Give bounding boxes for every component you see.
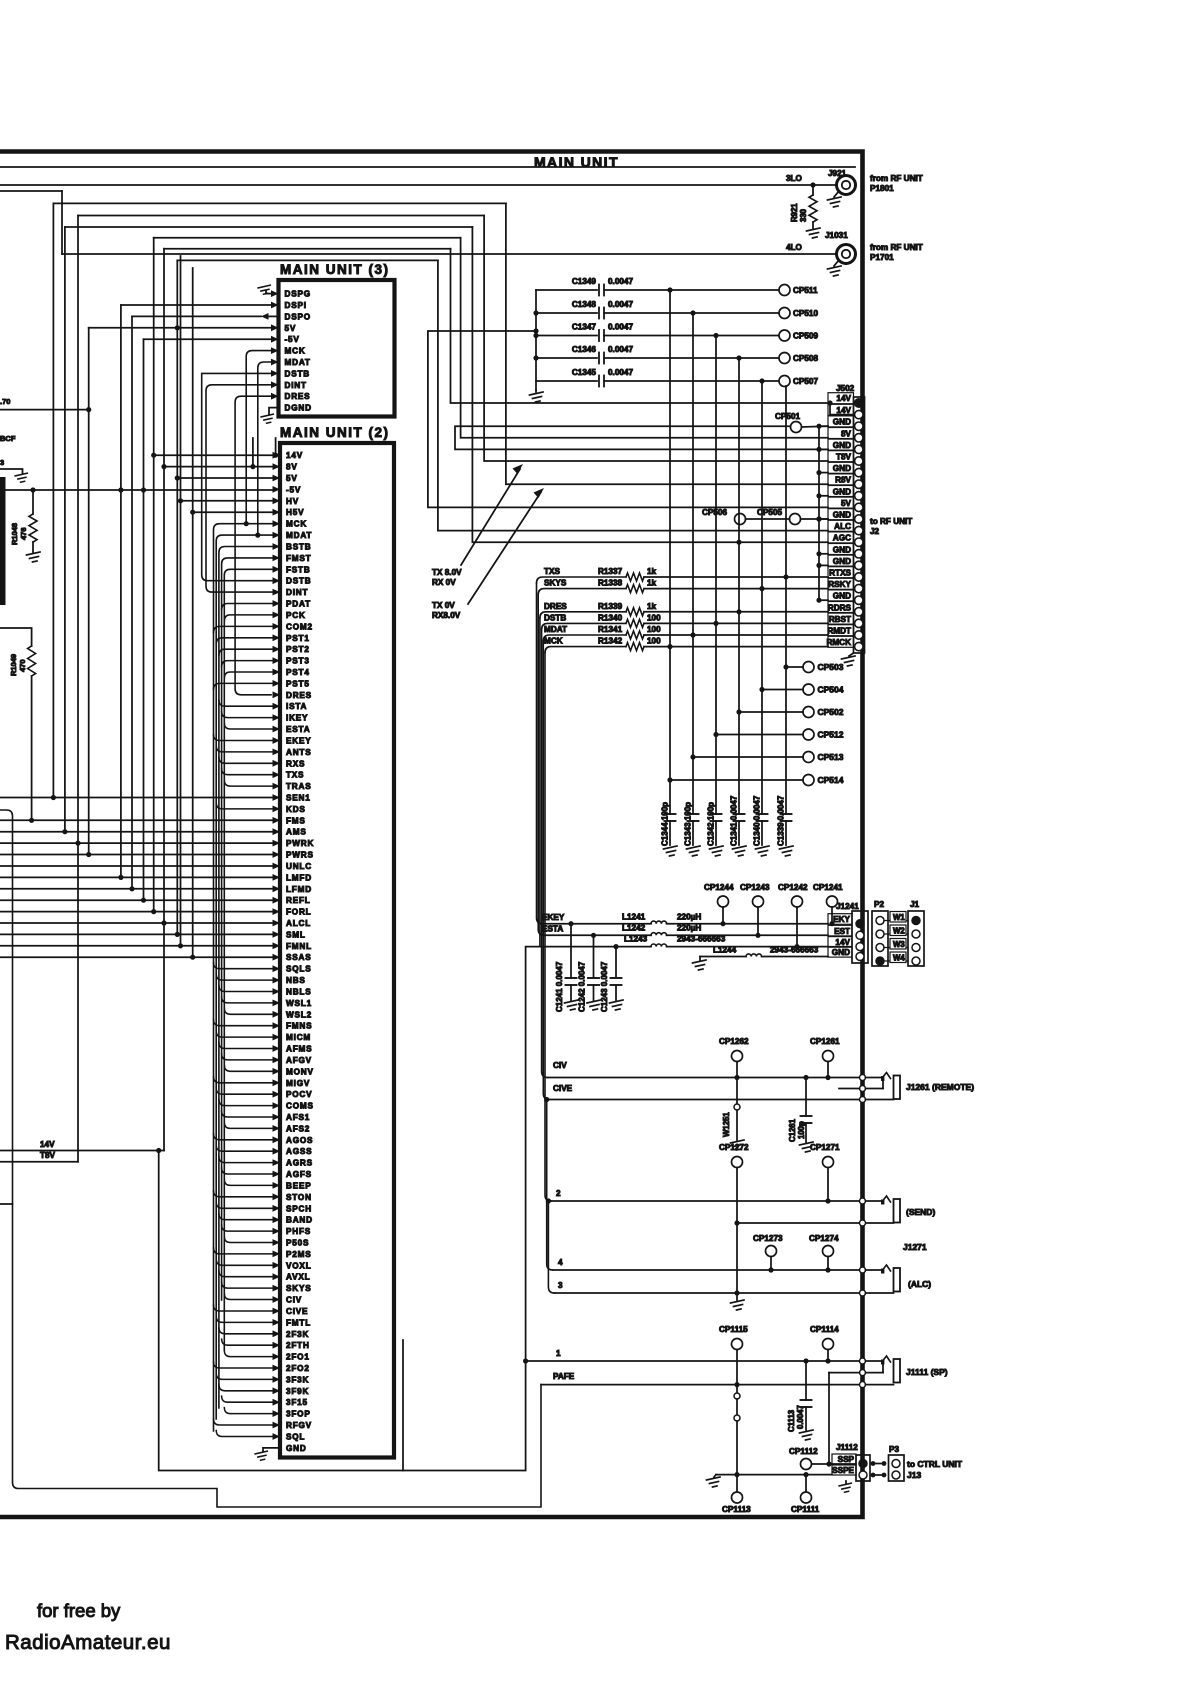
svg-text:3LO: 3LO [786,174,803,183]
svg-text:J1: J1 [910,900,920,909]
svg-text:FMNL: FMNL [286,942,312,951]
vertical nest PWRS [88,328,90,855]
svg-text:J13: J13 [907,1470,921,1480]
svg-text:P1801: P1801 [870,184,894,193]
wire pin feed TXS [222,769,273,775]
wire pin feed P2MS [214,1248,273,1254]
svg-text:CP503: CP503 [818,662,844,672]
wire band core strand MDAT [216,535,272,1419]
wire 8V from nest to J502 [461,238,828,438]
svg-text:CP514: CP514 [818,775,844,785]
wire 5V MU3 from nest [89,327,271,329]
wire pin feed KDS [216,803,272,809]
svg-text:330: 330 [799,208,808,222]
jumper W4 [884,960,908,962]
wire HV MU2 from nest [181,500,273,502]
svg-text:RDRS: RDRS [828,603,852,612]
wire GND bus at J502 [818,426,820,600]
svg-text:RMCK: RMCK [826,638,851,647]
wire 8V band vertical [252,438,254,467]
svg-text:P50S: P50S [286,1239,309,1248]
svg-text:3: 3 [0,458,4,467]
svg-text:W2: W2 [893,927,905,936]
wire DRES MU3 to MU2 [235,396,271,695]
inductor L1242 220uH [651,933,667,936]
svg-text:C1341 0.0047: C1341 0.0047 [730,795,739,846]
svg-text:IKEY: IKEY [286,714,308,723]
wire pin feed 3F9K [219,1385,273,1391]
pin J502-1 14V [828,393,854,404]
svg-text:0.0047: 0.0047 [608,323,633,332]
jumper W2 [884,933,908,935]
pin J1112 SSP [832,1454,856,1464]
svg-text:LFMD: LFMD [286,885,312,894]
svg-text:5V: 5V [841,499,852,508]
svg-text:C1345: C1345 [572,368,597,377]
svg-text:AGFS: AGFS [286,1170,312,1179]
svg-text:PST4: PST4 [286,668,310,677]
wire DSPI from nest [121,304,271,306]
svg-text:BAND: BAND [286,1216,313,1225]
wire GND U-strap [455,426,828,449]
svg-text:POCV: POCV [286,1090,312,1099]
svg-text:DGND: DGND [285,404,312,413]
wire L1243 row [526,946,651,948]
pin J502-10 5V [828,497,854,508]
jack J1261 REMOTE [860,1075,866,1081]
svg-text:W4: W4 [893,954,905,963]
svg-text:NBLS: NBLS [286,988,312,997]
svg-text:CP510: CP510 [793,309,818,318]
svg-text:GND: GND [833,592,851,601]
wire left edge to MU2 LMFD [0,876,273,878]
svg-text:AGOS: AGOS [286,1136,313,1145]
wire 14V bottom [0,1150,164,1152]
svg-text:2943-666663: 2943-666663 [770,946,819,955]
svg-text:R1341: R1341 [598,625,623,634]
svg-text:TRAS: TRAS [286,782,312,791]
wire band core strand FSTB [224,569,272,1350]
wire band core strand MCK [214,524,273,1431]
svg-text:C1344 100p: C1344 100p [661,802,670,846]
svg-text:GND: GND [833,545,851,554]
wire pin feed MONV [224,1065,272,1071]
svg-text:.70: .70 [0,397,10,406]
svg-text:SQL: SQL [286,1433,305,1442]
svg-text:CP502: CP502 [818,707,844,717]
svg-text:5V: 5V [285,324,297,333]
resistor R921 330 [812,185,814,195]
svg-text:CP511: CP511 [793,286,818,295]
wire DSTB riser to CIV [542,629,548,1077]
svg-text:P2MS: P2MS [286,1250,312,1259]
svg-text:-5V: -5V [285,335,300,344]
svg-text:UNLC: UNLC [286,862,312,871]
pin J502-20 RBST [828,613,854,624]
wire pin feed VOXL [216,1259,272,1265]
wire T8V from nest to J502 [484,216,828,462]
wire pin feed CIVE [214,1305,273,1311]
wire pin feed 3F3K [216,1373,272,1379]
pin J502-16 RTXS [828,567,854,578]
svg-text:C1348: C1348 [572,300,597,309]
wire 5V MU2 from nest [177,477,272,479]
resistor R1337 1k [626,573,644,581]
wire pin feed MIGV [214,1077,273,1083]
svg-text:CP1241: CP1241 [813,883,843,892]
svg-text:C1346: C1346 [572,345,597,354]
svg-text:to RF UNIT: to RF UNIT [870,517,912,526]
wire MDAT row [543,635,626,641]
svg-text:14V: 14V [836,394,851,403]
svg-text:SSAS: SSAS [286,953,312,962]
wire pin feed STON [214,1191,273,1197]
svg-text:CP1272: CP1272 [719,1143,749,1152]
wire TXS row [537,577,627,583]
ground under C1241 [565,1000,579,1010]
capacitor C1241 0.0047 [568,921,573,926]
wire CP1112 to SSP [812,1463,857,1465]
wire pin feed TRAS [224,780,272,786]
svg-text:R1337: R1337 [598,567,623,576]
svg-text:R921: R921 [790,203,799,222]
ground under CP1272 branch [731,1300,745,1310]
wire -5V MU3 from nest [144,338,272,340]
svg-text:CIVE: CIVE [286,1307,308,1316]
svg-text:FSTB: FSTB [286,565,311,574]
wire left edge to MU2 REFL [0,899,273,901]
ground under C1344 [664,846,678,856]
svg-text:R8V: R8V [835,476,851,485]
wire pin feed ANTS [216,746,272,752]
svg-text:L1243: L1243 [624,935,648,944]
svg-text:DSPI: DSPI [285,301,307,310]
jumper W1251 [736,1078,738,1105]
svg-text:R1339: R1339 [598,602,623,611]
wire 14V bracket J502 [827,400,832,405]
svg-text:C1339 0.0047: C1339 0.0047 [777,795,786,846]
wire 14V from nest to J502 [451,249,829,403]
svg-text:CP1243: CP1243 [740,883,770,892]
ground under C1113 [800,1430,814,1440]
svg-text:TX 0V: TX 0V [432,601,455,610]
wire pin feed RFGV [214,1419,273,1425]
svg-text:DSTB: DSTB [544,613,566,622]
svg-text:L1244: L1244 [713,946,737,955]
wire MCK riser to wire 2 [545,653,551,1201]
ground under R1048 [27,552,41,562]
component cut at left edge [0,477,6,605]
wire AGC from nest to J502 [472,227,828,542]
pin J502-12 ALC [828,520,854,531]
ground at J1031 [834,260,839,266]
svg-text:CP504: CP504 [818,685,844,695]
pin J1112 SSPE [832,1465,856,1475]
pin J502-19 RDRS [828,602,854,613]
svg-text:100: 100 [647,637,661,646]
test point CP514 [803,775,814,786]
vertical nest AMS [64,227,66,832]
svg-text:AVXL: AVXL [286,1273,310,1282]
pin J1241 EKY [828,914,852,925]
ground under C1243 [610,1000,624,1010]
capacitor C1346 0.0047 [536,357,597,359]
jack J1271 SEND [860,1198,866,1204]
ground stub top-left [0,469,23,473]
svg-text:LMFD: LMFD [286,873,312,882]
svg-text:0.0047: 0.0047 [608,368,633,377]
wire return vertical mid [402,1340,404,1471]
wire 8V MU2 from nest [164,466,273,468]
wire MCK MU3 to MU2 MCK [246,351,271,524]
svg-text:CP501: CP501 [775,412,800,421]
pin J502-18 GND [828,590,854,601]
svg-text:W3: W3 [893,940,905,949]
svg-text:from RF UNIT: from RF UNIT [870,174,923,183]
wire SP ring contact [829,1372,860,1374]
svg-text:J1112: J1112 [836,1443,858,1452]
svg-text:DSPO: DSPO [285,312,311,321]
svg-text:RTXS: RTXS [829,569,851,578]
wire pin feed PHFS [222,1225,273,1231]
svg-text:RXS: RXS [286,759,305,768]
svg-text:J921: J921 [828,169,847,178]
wire H5V MU2 from nest [193,511,273,513]
svg-text:RX 0V: RX 0V [432,578,456,587]
svg-text:R1338: R1338 [598,579,623,588]
ground at MAIN UNIT(2) GND [263,1448,280,1451]
ground of caps bus [535,390,537,392]
resistor R1339 1k [626,608,644,616]
svg-text:AFS1: AFS1 [286,1113,310,1122]
wire DSPO to nest [132,315,261,317]
svg-text:3F3K: 3F3K [286,1375,309,1384]
svg-text:FMTL: FMTL [286,1318,311,1327]
inductor L1243 2943-666663 [651,944,667,947]
svg-text:AGC: AGC [833,534,851,543]
svg-text:MDAT: MDAT [285,358,311,367]
svg-text:RMDT: RMDT [827,627,851,636]
svg-text:T8V: T8V [40,1151,56,1160]
svg-text:CP513: CP513 [818,752,844,762]
node caps left bus [535,290,537,390]
svg-text:1k: 1k [647,567,657,576]
svg-text:MCK: MCK [286,520,307,529]
wire pin feed IKEY [222,712,273,718]
wire CIV [548,1077,859,1079]
wire pin feed ESTA [224,723,272,729]
pin J1241 EST [828,925,852,936]
svg-text:DRES: DRES [285,392,311,401]
pin J502-14 GND [828,544,854,555]
svg-text:COM2: COM2 [286,622,313,631]
wire pin feed AFMS [219,1043,273,1049]
test point CP508 [779,353,790,364]
svg-text:PST1: PST1 [286,634,310,643]
svg-text:RFGV: RFGV [286,1421,312,1430]
svg-text:RadioAmateur.eu: RadioAmateur.eu [5,1631,171,1654]
pin J502-7 GND [828,462,854,473]
svg-text:PST5: PST5 [286,679,310,688]
wire SSPE net [716,1474,832,1476]
pin J1241 14V [828,937,852,948]
pin J502-5 GND [828,439,854,450]
resistor R1338 1k [626,585,644,593]
svg-text:C1343 100p: C1343 100p [684,802,693,846]
svg-text:VOXL: VOXL [286,1261,312,1270]
wire DINT MU3 to MU2 DINT [206,385,273,592]
svg-text:R1049: R1049 [9,654,18,676]
wire SKYS row [538,589,626,595]
svg-text:8V: 8V [841,429,852,438]
wire pin feed AFS2 [224,1122,272,1128]
svg-text:C1261: C1261 [788,1118,797,1142]
svg-text:CP1244: CP1244 [704,883,734,892]
svg-text:GND: GND [286,1444,307,1453]
wire band core strand FMST [222,558,273,1300]
vertical nest FMNL [180,256,182,946]
ground under C1343 [687,846,701,856]
svg-text:P2: P2 [874,900,884,909]
resistor R1049 470 [0,628,32,646]
link J1112-P3 SSP [871,1461,876,1466]
svg-text:CP1271: CP1271 [810,1143,840,1152]
svg-text:SSP: SSP [838,1455,855,1464]
svg-text:CP1274: CP1274 [809,1234,839,1243]
svg-text:WSL2: WSL2 [286,1010,312,1019]
capacitor C1347 0.0047 [536,335,597,337]
wire L1244 row [700,956,746,958]
test point CP1111 [801,1492,812,1503]
capacitor C1113 0.0047 [805,1361,807,1400]
svg-text:CP1113: CP1113 [722,1505,751,1514]
wire pin feed AGRS [219,1157,273,1163]
svg-text:CP1114: CP1114 [810,1325,839,1334]
svg-text:476: 476 [19,527,28,540]
svg-text:WSL1: WSL1 [286,999,312,1008]
wire 3 [554,1292,858,1294]
svg-text:220µH: 220µH [677,924,701,933]
svg-text:0.0047: 0.0047 [608,277,633,286]
svg-text:STON: STON [286,1193,312,1202]
svg-text:L1241: L1241 [622,913,646,922]
ground under C1342 [710,846,724,856]
wire nest ring 8V [154,237,461,239]
svg-text:AGRS: AGRS [286,1159,313,1168]
wire return line B [0,810,541,1507]
svg-text:J1241: J1241 [836,902,859,911]
test point CP509 [779,330,790,341]
vertical nest LFMD [131,316,133,888]
svg-text:PDAT: PDAT [286,600,311,609]
svg-text:GND: GND [833,487,851,496]
svg-text:RX8.0V: RX8.0V [432,611,461,620]
svg-text:J2: J2 [870,527,880,536]
capacitor C1342 100p [715,336,717,815]
svg-text:C1241 0.0047: C1241 0.0047 [555,961,564,1012]
svg-text:ALCL: ALCL [286,919,311,928]
wire CP1272 vertical [736,1168,738,1301]
svg-text:BCF: BCF [0,434,16,443]
wire pin feed BAND [219,1214,273,1220]
svg-text:AFS2: AFS2 [286,1124,310,1133]
svg-text:DINT: DINT [285,381,307,390]
svg-text:1k: 1k [647,602,657,611]
wire ESTA [544,934,651,936]
capacitor C1243 0.0047 [613,944,618,949]
ground under C1242 [587,1000,601,1010]
svg-text:GND: GND [833,441,851,450]
svg-text:FMS: FMS [286,816,306,825]
svg-text:ESTA: ESTA [542,925,563,934]
svg-text:MONV: MONV [286,1067,314,1076]
svg-text:EST: EST [834,927,850,936]
svg-text:CP1273: CP1273 [753,1234,783,1243]
inductor L1244 2943-666663 [746,954,762,957]
wire pin feed SPCH [216,1202,272,1208]
svg-text:0.0047: 0.0047 [608,300,633,309]
wire pin feed AFGV [222,1054,273,1060]
svg-text:100: 100 [647,625,661,634]
svg-text:14V: 14V [835,938,850,947]
wire MCK row [545,647,626,653]
ground under R921 [807,228,821,238]
svg-text:4LO: 4LO [786,243,803,252]
svg-text:C1242 0.0047: C1242 0.0047 [578,961,587,1012]
vertical nest SEN1 [52,203,54,797]
svg-text:220µH: 220µH [677,913,701,922]
svg-text:NBS: NBS [286,976,306,985]
pin J502-9 GND [828,486,854,497]
svg-text:CIVE: CIVE [553,1084,573,1093]
svg-text:CP1261: CP1261 [810,1037,840,1046]
vertical nest REFL [143,339,145,900]
capacitor C1345 0.0047 [536,380,597,382]
vertical nest T8V rail [77,216,79,1162]
svg-text:SPCH: SPCH [286,1204,312,1213]
wire 14V MU2 from nest [154,454,273,456]
svg-text:SKYS: SKYS [286,1284,312,1293]
svg-text:ESTA: ESTA [286,725,310,734]
vertical nest LMFD [120,305,122,877]
svg-text:REFL: REFL [286,896,311,905]
wire left edge to MU2 SML [0,933,273,935]
wire pin feed COM2 [214,626,273,632]
svg-text:MAIN UNIT (2): MAIN UNIT (2) [280,425,390,440]
svg-text:PAFE: PAFE [553,1372,575,1381]
pin J502-21 RMDT [828,625,854,636]
wire nest ring T8V [78,215,484,217]
wire 2 [551,1200,859,1202]
wire pin feed BEEP [224,1179,272,1185]
svg-text:MICM: MICM [286,1033,311,1042]
test point CP502 [803,707,814,718]
svg-text:ALC: ALC [834,522,851,531]
arrow to R8V wire [468,492,541,604]
wire stub at left edge [0,1203,13,1205]
test point CP504 [803,684,814,695]
wire pin feed SKYS [222,1282,273,1288]
pin J502-22 RMCK [828,636,854,647]
svg-text:for free by: for free by [37,1600,121,1621]
svg-text:FORL: FORL [286,908,311,917]
svg-text:2FTH: 2FTH [286,1341,310,1350]
svg-text:C1113: C1113 [787,1409,796,1432]
svg-text:CP508: CP508 [793,354,818,363]
wire pin feed COMS [219,1100,273,1106]
svg-text:14V: 14V [40,1140,55,1149]
pin J502-15 GND [828,555,854,566]
